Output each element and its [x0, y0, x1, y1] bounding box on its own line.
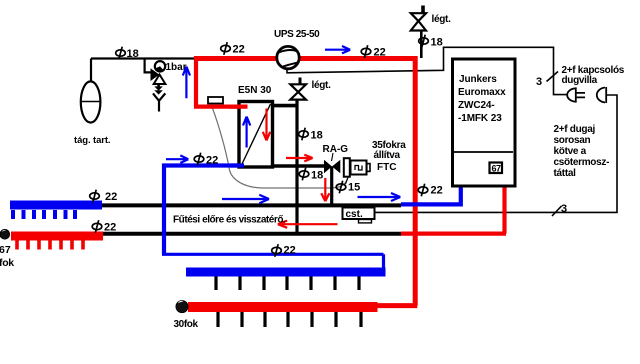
red arrow down in exchanger	[263, 109, 270, 141]
svg-text:15: 15	[348, 182, 360, 194]
blue arrow up in exchanger	[243, 117, 250, 148]
red arrow left return line	[278, 221, 338, 228]
radiator bottom blue	[186, 268, 386, 291]
red arrow down RA-G	[321, 178, 329, 201]
svg-text:E5N 30: E5N 30	[238, 85, 272, 96]
sensor ball 30fok	[176, 301, 188, 313]
svg-text:kötve a: kötve a	[554, 146, 587, 157]
svg-text:22: 22	[431, 185, 443, 197]
pipe red boiler flow	[401, 186, 506, 234]
svg-text:22: 22	[104, 222, 116, 234]
blue arrow right exchanger inlet	[166, 155, 188, 163]
FTC thermostat head	[344, 158, 370, 177]
svg-text:2+f dugaj: 2+f dugaj	[554, 124, 596, 135]
wire break slash bottom	[552, 206, 562, 216]
svg-text:22: 22	[206, 155, 218, 167]
svg-text:22: 22	[233, 44, 245, 56]
red arrow right exchanger outlet	[286, 155, 313, 162]
heat exchanger E5N 30	[239, 102, 273, 168]
red inlet into exchanger	[230, 104, 248, 108]
label phi22 radiator blue	[90, 190, 100, 203]
boiler display 67	[490, 163, 503, 174]
svg-text:dugvilla: dugvilla	[562, 75, 598, 86]
pipe thermostat cst box	[343, 208, 375, 223]
svg-text:Junkers: Junkers	[459, 74, 497, 85]
blue inlet into exchanger	[230, 163, 244, 167]
air vent valve top right	[411, 6, 426, 31]
svg-text:ZWC24-: ZWC24-	[458, 100, 495, 111]
svg-text:Fűtési előre és visszatérő.: Fűtési előre és visszatérő.	[173, 215, 286, 226]
capillary tube sensor to FTC	[211, 105, 348, 189]
wire break slash top	[547, 72, 559, 82]
svg-text:67: 67	[492, 164, 502, 174]
pipe red main top	[196, 56, 417, 61]
svg-text:légt.: légt.	[312, 80, 332, 91]
air vent valve above exchanger	[290, 78, 306, 100]
pipe safety valve stub	[145, 59, 151, 73]
label phi22 near boiler	[418, 184, 428, 197]
svg-text:22: 22	[105, 191, 117, 203]
svg-text:22: 22	[284, 245, 296, 257]
sensor ball 67fok	[0, 230, 10, 240]
blue arrow up near red elbow	[183, 67, 190, 99]
plug 2+f	[567, 88, 585, 101]
svg-text:állítva: állítva	[374, 150, 401, 161]
svg-text:sorosan: sorosan	[554, 135, 591, 146]
svg-text:67: 67	[0, 244, 11, 256]
radiator top-left blue	[10, 201, 102, 220]
label phi18 tank line	[116, 47, 126, 60]
svg-text:fok: fok	[0, 257, 14, 269]
pipe RA-G drop	[330, 167, 333, 206]
pipe blue exchanger inlet	[162, 163, 244, 167]
label phi22 exchanger inlet	[194, 153, 204, 166]
pipe vertical riser at exchanger right	[295, 100, 298, 234]
svg-text:légt.: légt.	[432, 14, 452, 25]
pipe blue riser	[162, 164, 166, 255]
svg-text:18: 18	[431, 37, 443, 49]
svg-text:cst.: cst.	[346, 209, 363, 220]
svg-text:18: 18	[311, 130, 323, 142]
radiator left red	[11, 232, 103, 250]
label phi22 bottom blue	[272, 244, 282, 257]
RA-G valve	[324, 160, 340, 173]
blue arrow right top	[325, 46, 350, 53]
pipe red elbow to exchanger	[194, 56, 248, 107]
label phi18 riser lower	[299, 168, 309, 181]
leader RA-G	[332, 153, 334, 161]
pipe exchanger outlet to RA-G valve	[272, 164, 325, 168]
expansion tank	[81, 81, 101, 122]
pipe red main vertical	[377, 56, 417, 306]
label phi22 radiator red	[92, 220, 102, 233]
svg-text:22: 22	[374, 47, 386, 59]
svg-text:Euromaxx: Euromaxx	[458, 87, 506, 98]
pipe heating return line	[100, 232, 401, 236]
pipe blue bottom line	[162, 254, 384, 271]
pipe tank line	[91, 57, 196, 59]
label phi15	[336, 181, 346, 194]
boiler Junkers	[453, 59, 516, 186]
svg-text:tág. tart.: tág. tart.	[74, 135, 110, 146]
pipe blue boiler return	[401, 186, 463, 204]
pump UPS 25-50	[277, 46, 299, 68]
svg-text:táttal: táttal	[554, 168, 577, 179]
wire pump power cable	[287, 47, 568, 94]
socket 2+f	[597, 87, 606, 103]
blue arrow right flow line	[222, 195, 269, 203]
svg-text:csötermosz-: csötermosz-	[554, 157, 610, 168]
svg-text:3: 3	[561, 203, 567, 215]
pipe airvent stub top right	[420, 31, 423, 59]
svg-text:18: 18	[127, 48, 139, 60]
svg-text:30fok: 30fok	[174, 319, 199, 330]
label phi18 riser upper	[299, 128, 309, 141]
label phi22 top left	[221, 42, 231, 55]
label phi22 top right	[361, 45, 371, 58]
label phi18 airvent	[419, 35, 429, 48]
radiator bottom red	[188, 302, 378, 327]
svg-text:3: 3	[536, 76, 542, 88]
blue arrow right near boiler	[358, 193, 401, 201]
pipe exchanger top to airvent riser	[272, 104, 296, 108]
leader FTC	[346, 178, 349, 185]
sensor bulb on red inlet	[208, 97, 223, 104]
wire socket to pipe thermostat	[375, 95, 618, 212]
svg-text:18: 18	[311, 170, 323, 182]
pipe heating flow line	[101, 203, 401, 207]
pipe tank riser	[90, 59, 92, 83]
safety valve group	[151, 61, 166, 111]
svg-text:FTC: FTC	[377, 162, 396, 173]
svg-text:RA-G: RA-G	[323, 144, 349, 155]
svg-text:UPS 25-50: UPS 25-50	[274, 29, 320, 40]
svg-text:-1MFK 23: -1MFK 23	[458, 113, 502, 124]
